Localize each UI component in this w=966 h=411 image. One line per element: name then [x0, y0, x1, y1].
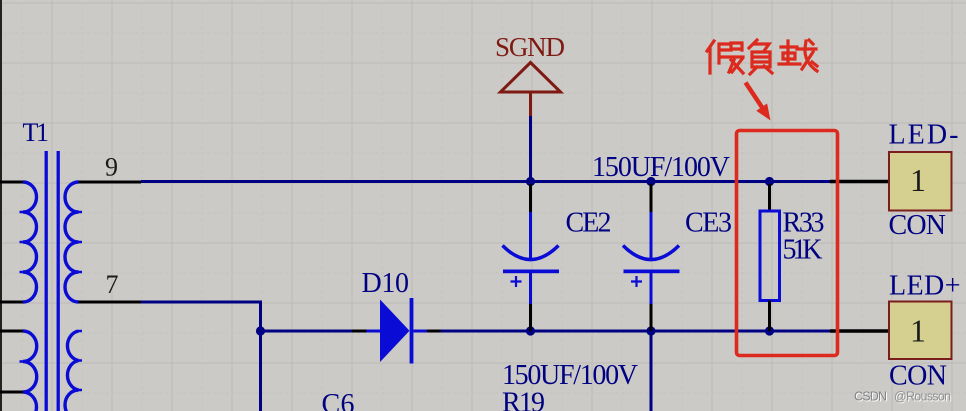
svg-text:T1: T1 [23, 118, 50, 147]
junction top rail x=530.5 [526, 177, 535, 186]
wire bottom rail right [441, 330, 831, 333]
capacitor CE2 [503, 184, 560, 331]
connector LED+ box [889, 302, 952, 360]
pin number 9 [105, 153, 118, 182]
svg-text:CE2: CE2 [566, 208, 612, 239]
svg-text:R19: R19 [502, 388, 545, 411]
designator R19 (component below view) [502, 388, 545, 411]
junction bottom rail x=769.5 [765, 326, 774, 335]
transformer T1 primary top pin lead upper [0, 181, 23, 184]
transformer T1 primary bottom winding [20, 331, 37, 411]
annotation red box around R33 [737, 131, 838, 356]
junction top rail x=769.5 [765, 177, 774, 186]
svg-text:51K: 51K [783, 235, 823, 266]
svg-text:7: 7 [106, 270, 119, 299]
svg-text:150UF/100V: 150UF/100V [502, 360, 638, 391]
designator R33 [783, 208, 825, 239]
designator CE2 [566, 208, 612, 239]
transformer T1 secondary bottom winding [65, 331, 82, 411]
svg-text:SGND: SGND [495, 32, 565, 62]
transformer T1 primary bottom pin lead upper [0, 330, 23, 333]
pin number 7 [106, 270, 119, 299]
value 150UF/100V (CE2) [502, 360, 638, 391]
diode D10 [352, 298, 441, 364]
designator CON (bottom connector) [889, 361, 947, 392]
junction bottom rail x=260.5 [256, 326, 265, 335]
wire SGND stem [529, 116, 532, 182]
pin 9 lead [79, 181, 142, 184]
svg-text:1: 1 [910, 313, 926, 349]
transformer T1 primary top pin lead lower [0, 301, 23, 304]
designator C6 (component below view) [322, 389, 355, 411]
svg-text:CON: CON [889, 210, 947, 241]
connector pin lead to LED- [830, 180, 889, 183]
wire down from node at x=651 [650, 331, 653, 411]
junction bottom rail x=651 [646, 326, 655, 335]
annotation text 假负载 (hand-drawn strokes) [707, 40, 817, 74]
svg-text:@Rousson: @Rousson [894, 390, 951, 404]
watermark CSDN @Rousson [854, 390, 952, 405]
junction bottom rail x=530.5 [526, 326, 535, 335]
transformer T1 primary top winding [20, 182, 37, 302]
connector pin lead to LED+ [830, 329, 889, 332]
net label LED- [889, 120, 959, 151]
svg-text:9: 9 [105, 153, 118, 182]
pin 7 lead [79, 301, 142, 304]
wire pin7 to diode node [141, 302, 261, 331]
svg-text:LED+: LED+ [889, 271, 961, 302]
svg-text:C6: C6 [322, 389, 355, 411]
svg-text:D10: D10 [362, 268, 410, 299]
designator D10 [362, 268, 410, 299]
net label LED+ [889, 271, 961, 302]
transformer T1 core [46, 151, 58, 411]
power port SGND [495, 32, 565, 116]
value 150UF/100V (CE3) [592, 152, 730, 183]
junction top rail x=651 [646, 177, 655, 186]
designator T1 [23, 118, 50, 147]
wire top rail net LED- [141, 180, 830, 183]
wire down from node at x=260.5 [259, 331, 262, 411]
transformer T1 primary bottom tap lead [0, 391, 23, 394]
resistor R33 [760, 184, 780, 331]
transformer T1 secondary top winding [65, 182, 82, 302]
svg-text:CON: CON [889, 361, 947, 392]
designator CE3 [685, 208, 732, 239]
wire bottom rail left [261, 330, 353, 333]
sheet edge line [0, 0, 2, 411]
svg-text:CSDN: CSDN [854, 390, 887, 404]
svg-text:1: 1 [910, 162, 926, 198]
connector LED- box [889, 152, 952, 211]
capacitor CE3 [623, 184, 680, 331]
svg-text:150UF/100V: 150UF/100V [592, 152, 730, 183]
designator CON (top connector) [889, 210, 947, 241]
value 51K [783, 235, 823, 266]
annotation red arrow [746, 83, 771, 121]
svg-text:CE3: CE3 [685, 208, 732, 239]
